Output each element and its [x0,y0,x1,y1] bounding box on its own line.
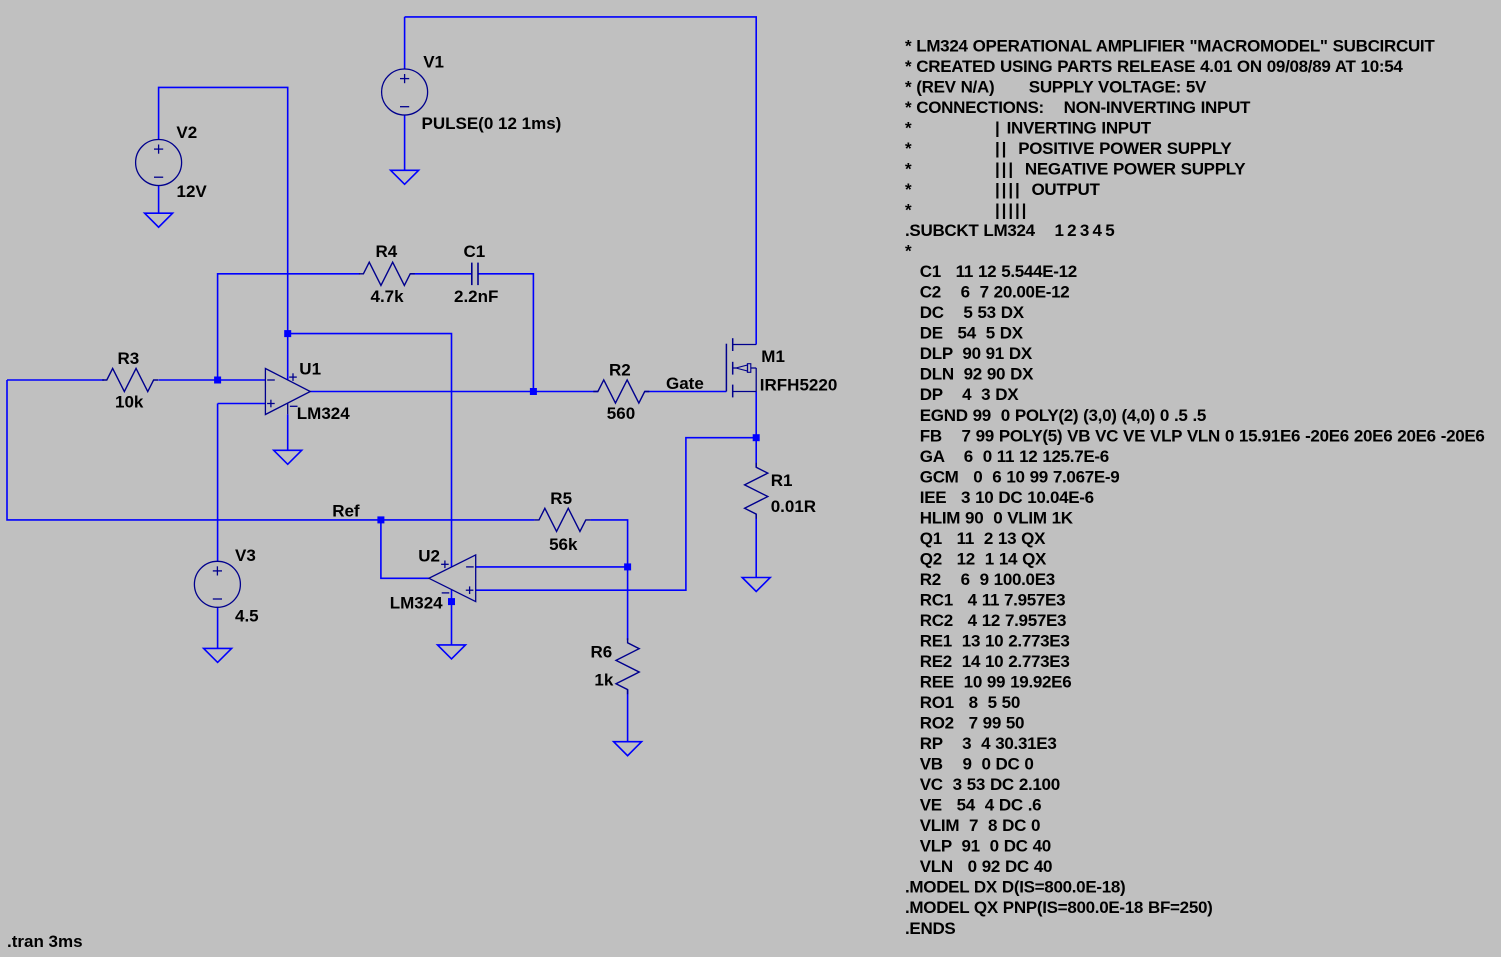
svg-text:VC 3 53 DC 2.100: VC 3 53 DC 2.100 [905,775,1060,794]
svg-text:PULSE(0 12 1ms): PULSE(0 12 1ms) [422,114,562,133]
wire R6 to ground [627,690,629,742]
svg-text:Ref: Ref [332,502,360,521]
resistor R6 [616,638,639,694]
svg-text:C1: C1 [464,242,486,261]
wire M1 source to R1 [755,392,757,468]
resistor R4 [359,262,415,285]
svg-text:10k: 10k [115,392,144,411]
wire V+ rail to U2 V+ pin [288,334,452,567]
svg-text:.MODEL QX PNP(IS=800.0E-18 BF=: .MODEL QX PNP(IS=800.0E-18 BF=250) [905,898,1213,917]
wire U2 + input to M1 source node [476,438,757,591]
svg-text:REE 10 99 19.92E6: REE 10 99 19.92E6 [905,673,1071,692]
svg-text:Gate: Gate [666,374,704,393]
svg-text:.ENDS: .ENDS [905,919,955,938]
svg-text:IRFH5220: IRFH5220 [760,376,837,395]
svg-text:RE1 13 10 2.773E3: RE1 13 10 2.773E3 [905,632,1070,651]
svg-text:R5: R5 [550,489,572,508]
svg-text:V1: V1 [423,53,444,72]
wire V1 to ground [404,115,406,170]
wire left loop / Ref line to R5 [7,380,534,520]
svg-text:DP 4 3 DX: DP 4 3 DX [905,385,1019,404]
svg-text:.MODEL DX D(IS=800.0E-18): .MODEL DX D(IS=800.0E-18) [905,878,1125,897]
ground (V1) [391,170,419,184]
svg-text:VLIM 7 8 DC 0: VLIM 7 8 DC 0 [905,816,1040,835]
svg-text:U1: U1 [299,360,321,379]
voltage source V2 [136,140,182,186]
svg-text:56k: 56k [549,535,578,554]
wire + input node to V3 [217,404,219,562]
node: V+ rail junction [284,330,291,337]
node Ref junction [377,516,384,523]
svg-text:RP 3 4 30.31E3: RP 3 4 30.31E3 [905,734,1057,753]
svg-text:* (REV N/A) SUPPLY VOLTA: * (REV N/A) SUPPLY VOLTAGE: 5V [905,77,1207,96]
wire R4 to C1 [410,273,472,275]
svg-text:* CREATED USING PARTS RELEASE: * CREATED USING PARTS RELEASE 4.01 ON 09… [905,57,1403,76]
svg-text:V2: V2 [176,123,197,142]
svg-text:EGND 99 0 POLY(2) (3,0) (4,0): EGND 99 0 POLY(2) (3,0) (4,0) 0 .5 .5 [905,406,1206,425]
node: R5/R6/U2- junction [624,563,631,570]
wire R2 to M1 gate [645,391,727,393]
svg-text:R6: R6 [591,643,613,662]
ground (V3) [204,648,232,662]
svg-text:.tran 3ms: .tran 3ms [7,932,83,951]
svg-text:1k: 1k [594,671,613,690]
wire Ref to U2 output [381,520,429,578]
svg-text:M1: M1 [761,347,785,366]
svg-text:R1: R1 [771,471,793,490]
wire R3 to U1 inverting input [159,379,266,381]
wire R5 to U2 inv node [590,520,627,567]
svg-text:V3: V3 [235,546,256,565]
svg-text:LM324: LM324 [390,593,443,612]
svg-text:DLN 92 90 DX: DLN 92 90 DX [905,365,1034,384]
svg-text:VLN 0 92 DC 40: VLN 0 92 DC 40 [905,857,1052,876]
wire U1 output to R2 [310,391,598,393]
svg-text:*: * [905,242,912,261]
wire C1 to output node [478,274,533,392]
node: output/feedback junction [530,388,537,395]
svg-text:U2: U2 [418,547,440,566]
wire node to R6 [627,567,629,640]
svg-text:C1 11 12 5.544E-12: C1 11 12 5.544E-12 [905,262,1077,281]
wire left to R3 [7,379,104,381]
node: inverting input junction [214,377,221,384]
svg-text:4.5: 4.5 [235,607,259,626]
svg-text:* || POSITIVE: * || POSITIVE POWER SUPPLY [905,139,1232,158]
svg-text:IEE 3 10 DC 10.04E-6: IEE 3 10 DC 10.04E-6 [905,488,1094,507]
ground (R1) [742,578,770,592]
svg-text:.SUBCKT LM324 1 2 3 4 5: .SUBCKT LM324 1 2 3 4 5 [905,221,1114,240]
wire U2 inverting input [476,566,628,568]
wire U2 V- pin to ground [451,590,453,645]
resistor R1 [745,463,768,519]
wire V3 to ground [217,608,219,649]
svg-text:VLP 91 0 DC 40: VLP 91 0 DC 40 [905,837,1051,856]
svg-text:RE2 14 10 2.773E3: RE2 14 10 2.773E3 [905,652,1070,671]
wire V1+ to M1 drain (top loop) [405,17,757,345]
wire U1 + input [218,403,266,405]
svg-text:2.2nF: 2.2nF [454,287,498,306]
svg-text:* | INVERTING: * | INVERTING INPUT [905,119,1152,138]
svg-text:R3: R3 [118,349,140,368]
svg-text:DLP 90 91 DX: DLP 90 91 DX [905,344,1033,363]
svg-text:4.7k: 4.7k [371,287,405,306]
svg-text:12V: 12V [177,182,208,201]
ground (U2 V-) [438,645,466,659]
svg-text:LM324: LM324 [297,404,350,423]
svg-text:RC2 4 12 7.957E3: RC2 4 12 7.957E3 [905,611,1066,630]
svg-text:RO1 8 5 50: RO1 8 5 50 [905,693,1020,712]
resistor R5 [534,508,590,531]
svg-text:DE 54 5 DX: DE 54 5 DX [905,324,1024,343]
node: U2 V- pin junction [448,598,455,605]
svg-text:R2: R2 [609,360,631,379]
svg-text:0.01R: 0.01R [771,497,816,516]
svg-text:R4: R4 [376,242,398,261]
svg-text:VB 9 0 DC 0: VB 9 0 DC 0 [905,755,1034,774]
svg-text:* |||| OUTPUT: * |||| OUTPUT [905,180,1101,199]
svg-text:R2 6 9 100.0E3: R2 6 9 100.0E3 [905,570,1055,589]
nmos transistor M1 [726,338,756,397]
ground (U1 V-) [274,450,302,464]
capacitor C1 [472,263,478,286]
svg-text:VE 54 4 DC .6: VE 54 4 DC .6 [905,796,1041,815]
op-amp U2 [429,555,476,602]
svg-text:* LM324 OPERATIONAL AMPLIFIER: * LM324 OPERATIONAL AMPLIFIER "MACROMODE… [905,36,1435,55]
ground (V2) [145,213,173,227]
svg-text:C2 6 7 20.00E-12: C2 6 7 20.00E-12 [905,283,1069,302]
svg-text:DC 5 53 DX: DC 5 53 DX [905,303,1025,322]
svg-text:560: 560 [607,404,635,423]
wire V1 top lead [404,17,406,70]
svg-text:RC1 4 11 7.957E3: RC1 4 11 7.957E3 [905,590,1065,609]
node: M1 source sense junction [753,434,760,441]
svg-text:* CONNECTIONS: NON-INVERTIN: * CONNECTIONS: NON-INVERTING INPUT [905,98,1251,117]
resistor R3 [102,368,158,391]
ground (R6) [614,742,642,756]
wire U1 V- pin to ground [287,414,289,450]
resistor R2 [593,380,649,403]
svg-text:FB 7 99 POLY(5) VB VC VE VL: FB 7 99 POLY(5) VB VC VE VLP VLN 0 15.91… [905,426,1485,445]
svg-text:RO2 7 99 50: RO2 7 99 50 [905,714,1024,733]
svg-text:GA 6 0 11 12 125.7E-6: GA 6 0 11 12 125.7E-6 [905,447,1109,466]
svg-text:* |||||: * ||||| [905,201,1028,220]
wire R1 to ground [755,514,757,577]
voltage source V1 [382,69,428,115]
svg-text:Q1 11 2 13 QX: Q1 11 2 13 QX [905,529,1046,548]
wire V2+ to U1 V+ pin [159,87,288,379]
svg-text:Q2 12 1 14 QX: Q2 12 1 14 QX [905,549,1047,568]
wire inverting node to R4 [218,274,360,380]
voltage source V3 [194,561,240,607]
svg-text:GCM 0 6 10 99 7.067E-9: GCM 0 6 10 99 7.067E-9 [905,467,1119,486]
wire V2 to ground [158,186,160,213]
svg-text:HLIM 90 0 VLIM 1K: HLIM 90 0 VLIM 1K [905,508,1074,527]
op-amp U1 [265,369,310,415]
svg-text:* ||| NEGATIV: * ||| NEGATIVE POWER SUPPLY [905,160,1246,179]
